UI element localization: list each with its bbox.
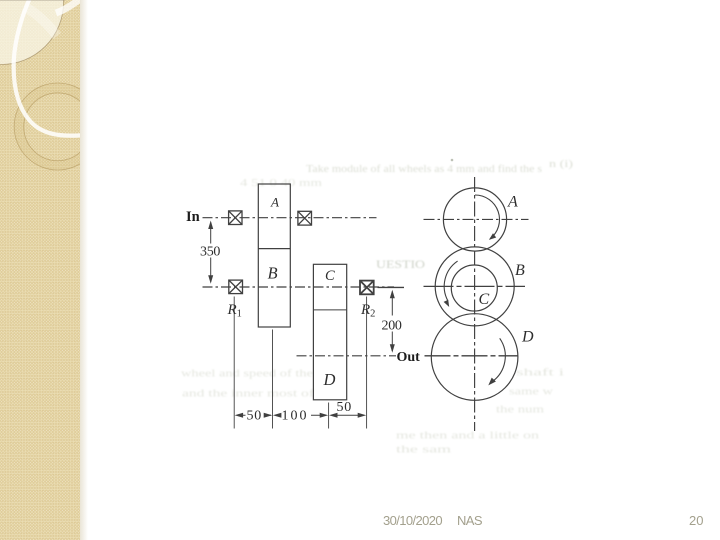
svg-text:D: D — [323, 370, 336, 389]
arrowhead 200 down — [390, 344, 395, 353]
gear circle A — [443, 188, 506, 251]
svg-text:50: 50 — [337, 400, 352, 415]
svg-text:R1: R1 — [227, 302, 242, 320]
rotation arrow on D — [492, 338, 505, 382]
ghost text bottom centre — [396, 431, 539, 456]
arrowhead rotation D — [488, 378, 496, 386]
shaft centerline B/C — [203, 286, 395, 288]
ghost text left bottom — [181, 369, 315, 400]
arrowhead 350 up — [208, 221, 213, 230]
rotation arrow on A — [475, 195, 500, 239]
centerline through circle D / Out — [425, 355, 518, 357]
ghost text line top — [240, 159, 573, 189]
arrowhead dim50b left — [329, 413, 338, 418]
svg-text:100: 100 — [282, 409, 309, 424]
dimension 200 line — [391, 292, 393, 352]
centerline through circle B — [424, 285, 526, 287]
bearing R2 — [360, 281, 374, 295]
C/D divider line — [313, 309, 346, 311]
svg-text:n (i): n (i) — [549, 159, 573, 170]
footer author — [457, 514, 482, 527]
extension line below R1 — [233, 297, 235, 429]
sidebar decorative band — [0, 0, 92, 540]
svg-text:C: C — [325, 268, 335, 284]
bottom dimension 50b line — [333, 414, 362, 416]
gear circle C — [451, 265, 497, 311]
bottom dimension 100 line — [278, 414, 325, 416]
svg-text:wheel and speed of the: wheel and speed of the — [181, 369, 314, 380]
shaft centerline In/A — [203, 217, 377, 219]
arrowhead dim100 left — [273, 413, 282, 418]
arrowhead 200 up — [390, 290, 395, 299]
svg-text:me then and a little on: me then and a little on — [396, 431, 539, 442]
svg-text:Take module of all wheels as 4: Take module of all wheels as 4 mm and fi… — [306, 164, 542, 175]
svg-text:B: B — [268, 264, 278, 283]
A/B divider line — [258, 248, 290, 250]
centerline through circle A — [424, 218, 529, 220]
arrowhead dim50 right — [264, 413, 273, 418]
gear circle D — [431, 314, 518, 401]
arrowhead rotation B — [444, 300, 450, 307]
bearing b2 — [298, 211, 312, 225]
svg-text:D: D — [521, 329, 534, 346]
bearing R1 — [229, 280, 243, 294]
ghost speck — [451, 159, 454, 162]
arrowhead rotation A — [489, 233, 496, 240]
arrowhead 350 down — [208, 275, 213, 284]
vertical centerline of gear circles — [474, 177, 476, 431]
svg-text:the sam: the sam — [396, 445, 451, 456]
svg-text:R2: R2 — [360, 302, 375, 320]
svg-text:and the inner most of: and the inner most of — [182, 389, 315, 400]
arrowhead dim100 right — [320, 413, 329, 418]
gear blank C/D rectangle — [313, 264, 346, 400]
svg-text:C: C — [479, 291, 490, 308]
svg-text:50: 50 — [247, 409, 262, 424]
gear circle B — [435, 247, 514, 326]
footer page number — [689, 514, 703, 527]
solid reference line right of R2 — [378, 286, 405, 288]
arrowhead dim50 left — [235, 413, 244, 418]
shaft centerline Out/D left part — [297, 355, 397, 357]
footer date — [383, 514, 442, 527]
ghost text right of circle D — [496, 368, 564, 416]
extension line below gear CD — [328, 403, 330, 429]
svg-text:350: 350 — [200, 245, 220, 260]
bottom dimension 50 line — [239, 414, 271, 416]
svg-text:200: 200 — [382, 319, 402, 334]
dimension 350 line — [210, 223, 212, 282]
extension line below R2 — [366, 297, 368, 429]
arrowhead dim50b right — [358, 413, 367, 418]
svg-text:A: A — [507, 194, 518, 211]
svg-text:shaft i: shaft i — [516, 368, 564, 379]
svg-text:UESTIO: UESTIO — [376, 259, 425, 271]
svg-text:Out: Out — [397, 350, 421, 365]
svg-text:same w: same w — [509, 387, 554, 398]
gear blank A/B rectangle — [258, 184, 290, 327]
svg-text:B: B — [515, 262, 525, 279]
rotation arrow on B — [444, 261, 457, 301]
svg-text:A: A — [270, 195, 279, 210]
bearing b1 — [229, 211, 242, 225]
extension line below gear AB — [272, 330, 274, 429]
svg-text:the num: the num — [496, 405, 544, 416]
svg-text:In: In — [186, 209, 200, 225]
